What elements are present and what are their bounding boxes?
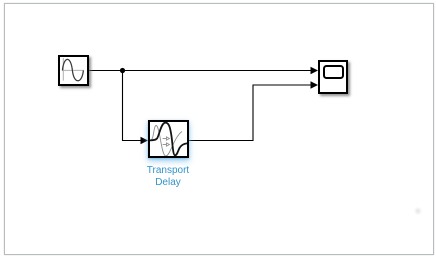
sine wave source block [58,55,89,86]
arrowhead into scope input 1 [311,67,319,74]
sine icon horizontal axis [62,69,84,71]
faint speck artifact [413,206,423,216]
arrowhead into scope input 2 [311,81,319,88]
icon: input sine (thin gray) [150,126,182,157]
arrowhead into transport delay input [141,137,149,144]
branch node junction dot [120,68,125,73]
icon: delayed sine (thick black) [150,123,188,156]
wire: branch down to transport delay input [123,71,141,141]
transport delay block [148,120,189,158]
scope screen icon [323,65,345,80]
sine icon curve [62,59,83,80]
wire: transport delay output to scope input 2 [189,85,311,141]
wire: sine wave output to scope input 1 [89,70,311,72]
icon: shift arrow upper [163,138,167,140]
scope block [318,60,348,94]
transport delay label [108,165,228,189]
icon: shift arrow lower [163,144,167,146]
sine icon vertical axis [62,58,64,81]
